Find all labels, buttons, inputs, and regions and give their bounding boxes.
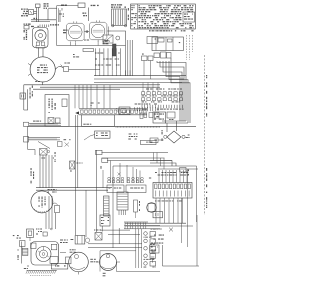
convection motor M2 (31, 191, 53, 213)
center horizontal bus 1 (94, 75, 186, 77)
timer labels top (36, 229, 47, 237)
bake contact row (108, 177, 124, 183)
resistor block left (22, 248, 28, 255)
timer left lead (18, 242, 22, 264)
harness lines to connector (96, 150, 169, 169)
wires into timer cluster (46, 196, 56, 230)
vertical label left of ladder (31, 168, 35, 183)
wire L1 top run (57, 40, 126, 58)
lower-left wire ladder (40, 152, 56, 188)
step-down wires right (157, 58, 190, 123)
wire color key text (21, 9, 28, 17)
connector drops bottom (155, 169, 188, 247)
wires bottom connecting (60, 251, 160, 272)
thermal fuse TF1 (31, 18, 56, 22)
center horizontal bus 2 (94, 78, 184, 80)
harness bus above connector (113, 161, 198, 249)
oven selector switch comb (95, 48, 120, 70)
power plug P1 (20, 93, 26, 99)
indicator lamp row 3 ticks (142, 105, 183, 110)
wires bottom middle buses (88, 226, 142, 248)
latch solenoid L1 (36, 4, 41, 22)
small relay right of fan (180, 168, 189, 175)
relay cluster K1-K3 (142, 52, 172, 79)
fuse list text rows (150, 235, 164, 254)
right front surface unit (89, 20, 107, 41)
lock indicator label (61, 5, 67, 11)
indicator lamp row 1 (142, 92, 183, 97)
wire to lock switch box (57, 5, 78, 7)
bake element switch (94, 230, 102, 241)
interlock plug (27, 229, 34, 241)
wire to lock switch (34, 12, 37, 14)
plug box right (153, 212, 163, 218)
left text block bottom (13, 235, 21, 239)
ticks left of legend (128, 8, 129, 20)
latch relay K4 (117, 107, 131, 115)
transformer T2 lower (117, 192, 128, 215)
right enclosure verticals (118, 228, 120, 244)
indicator lamp row 2 (142, 98, 183, 103)
wire drops to switch bank (136, 229, 142, 268)
control panel boundary vertical text (205, 55, 208, 215)
wires turning left at clock (162, 121, 188, 123)
strip left arrow (75, 111, 79, 114)
left connector stub (24, 122, 61, 148)
comb to bus verticals (96, 70, 130, 75)
terminal strip labels (91, 103, 100, 107)
center horizontal bus 3 (94, 82, 182, 84)
small switch bottom-left (20, 241, 25, 251)
motor lead label (35, 81, 43, 85)
labels under chassis bus (128, 134, 137, 140)
bottom-left text rows (60, 240, 68, 244)
ticks left of surface unit (63, 30, 68, 34)
relay boxes lower middle (107, 185, 146, 193)
oven control housing (152, 37, 183, 51)
main harness connector J1 (153, 183, 192, 199)
relay R2 above motor (71, 236, 85, 245)
relay box right of comb (147, 37, 158, 44)
power supply box 115V (150, 138, 164, 143)
oven lock switch S2 (78, 3, 99, 8)
marks below timer (24, 266, 29, 270)
connector drops top (159, 170, 187, 183)
ground hatch strip (26, 270, 57, 275)
bottom terminal strip TB2 (124, 222, 160, 229)
selector switch relay (103, 27, 120, 44)
wire top run (48, 8, 64, 20)
broil contact row (127, 177, 151, 183)
wires down to rectifier (167, 121, 177, 132)
wire bus y30 right (111, 31, 126, 40)
component cluster above heater (101, 161, 173, 188)
connector between surface units (85, 30, 90, 33)
cooling fan motor M5 (147, 203, 157, 213)
oven light switch cluster (58, 139, 71, 146)
left vertical label (30, 86, 33, 99)
oven selector switch contact strip (83, 49, 94, 52)
rectifier label vertical (162, 130, 163, 141)
dashed feeder wires (187, 35, 193, 60)
oven light / main motor M1 (28, 57, 55, 82)
left drop wire (24, 85, 28, 110)
bus to strip verticals (57, 6, 110, 109)
wire drops lower middle (76, 115, 97, 237)
long bus wire A (24, 84, 160, 86)
strip extension ticks right (135, 104, 158, 112)
label below fan motor (103, 273, 106, 277)
heater block HTR1 (104, 196, 110, 216)
label top-left (44, 3, 49, 9)
oven control board box (82, 115, 115, 127)
motor M2 connector (48, 189, 60, 213)
wire motor to center (69, 68, 101, 70)
wire harness blob to motor (39, 48, 44, 58)
aux contacts right of strip (140, 113, 159, 119)
fan motor M6 (96, 254, 120, 271)
timer assembly TM1 (31, 242, 59, 266)
small comp left of motor (66, 257, 72, 264)
clock module (153, 112, 175, 123)
power transformer T1 (111, 4, 127, 27)
chassis bus line (28, 126, 196, 128)
long bus wire C (33, 88, 120, 90)
door latch motor M4 (33, 28, 49, 49)
left stub pair upper (29, 121, 61, 126)
wire drops from top bar (60, 8, 89, 23)
blower motor M3 (69, 249, 89, 274)
left front surface unit (67, 21, 85, 42)
fuse F1 (70, 161, 83, 172)
labels between motors (90, 259, 98, 263)
resistor column lower (134, 200, 141, 218)
door switch box with X (40, 149, 50, 156)
main terminal strip TB1 (79, 109, 147, 115)
lower bus pair (36, 188, 112, 191)
connector pin labels (155, 172, 189, 176)
lower enclosure bus (125, 215, 199, 266)
legend caption (149, 30, 194, 31)
selector dark contact bar (113, 44, 117, 56)
surface unit labels (82, 13, 87, 17)
motor label box (141, 140, 157, 144)
relay K5 center (95, 131, 110, 138)
motor centrifugal switch S3 (55, 63, 70, 72)
junction circle right of relay R2 (85, 238, 89, 242)
grounding mark +E (151, 228, 174, 232)
surface unit lead right (71, 31, 112, 46)
legend table (131, 4, 196, 29)
bake and broil element box (45, 95, 69, 127)
clock terminal row (146, 89, 182, 90)
door lock switch S1 (29, 10, 34, 15)
vertical label column left (24, 30, 28, 40)
terminal row top-left (24, 24, 60, 30)
bend down to lower section (28, 126, 35, 155)
bridge rectifier CR1 (164, 131, 190, 143)
junction box label (100, 215, 110, 226)
capacitor label box (51, 264, 68, 270)
long bus wire B (40, 86, 160, 88)
bus bundle center vertical (126, 40, 133, 76)
surface switch bank (144, 232, 156, 268)
capacitor C2 marks (151, 257, 155, 263)
bus to lamp row verticals (143, 83, 158, 92)
